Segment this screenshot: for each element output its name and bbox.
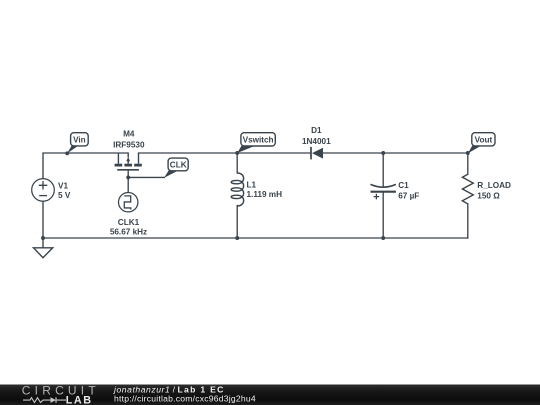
wire top rail left (V1 to M4 source) — [43, 153, 128, 178]
label R_LOAD value — [477, 181, 511, 201]
footer bar — [0, 385, 540, 405]
ground — [34, 238, 53, 258]
svg-text:1N4001: 1N4001 — [302, 137, 331, 146]
junction at M4 gate — [126, 175, 130, 179]
svg-text:M4: M4 — [123, 130, 135, 139]
inductor L1 — [231, 173, 243, 206]
svg-text:56.67 kHz: 56.67 kHz — [110, 227, 147, 236]
wire V1 bottom to ground junction — [42, 201, 44, 238]
svg-text:L1: L1 — [247, 181, 257, 190]
wire Vout corner down to R_LOAD — [467, 153, 469, 174]
wire R_LOAD bottom to rail — [467, 204, 469, 238]
junction at L1 bottom — [235, 236, 239, 240]
label C1 value — [398, 181, 419, 201]
svg-text:CLK: CLK — [170, 161, 187, 170]
svg-text:150 Ω: 150 Ω — [477, 192, 500, 201]
wire top rail right (D1 anode to Vout corner) — [323, 152, 468, 154]
wire bottom rail — [43, 237, 468, 239]
node flag CLK — [164, 158, 188, 178]
junction at C1 bottom — [381, 236, 385, 240]
wire C1 bottom to rail — [382, 192, 384, 238]
svg-text:R_LOAD: R_LOAD — [477, 181, 511, 190]
svg-text:IRF9530: IRF9530 — [113, 141, 145, 150]
junction at ground node — [41, 236, 45, 240]
label L1 value — [247, 181, 283, 200]
svg-text:67 µF: 67 µF — [398, 192, 419, 201]
junction at Vswitch node — [235, 151, 239, 155]
wire gate junction down to CLK1 — [127, 177, 129, 192]
svg-text:5 V: 5 V — [58, 191, 71, 200]
svg-text:V1: V1 — [58, 182, 68, 191]
resistor R_LOAD — [462, 174, 473, 204]
label CLK1 value — [110, 218, 147, 237]
capacitor C1 — [371, 184, 396, 199]
wire top rail middle (M4 drain to D1 cathode) — [139, 152, 311, 154]
svg-text:C1: C1 — [398, 181, 409, 190]
label M4 — [113, 130, 145, 150]
svg-text:CLK1: CLK1 — [118, 218, 140, 227]
CircuitLab logo wordmark — [22, 383, 100, 405]
junction at C1 top — [381, 151, 385, 155]
CircuitLab logo squiggle (resistor + diode) — [23, 397, 66, 403]
node flag Vout — [466, 133, 495, 155]
svg-text:Vin: Vin — [73, 136, 86, 145]
transistor M4 (PMOS IRF9530) — [115, 153, 142, 170]
svg-text:http://circuitlab.com/cxc96d3j: http://circuitlab.com/cxc96d3jg2hu4 — [114, 394, 256, 404]
footer credit line — [113, 384, 256, 403]
label V1 value — [58, 182, 71, 201]
voltage source V1 — [32, 179, 55, 202]
diode D1 — [311, 147, 323, 160]
node flag Vswitch — [237, 133, 275, 153]
wire Vswitch branch down to L1 — [236, 153, 238, 173]
label D1 — [302, 126, 331, 146]
wire C1 top branch — [382, 153, 384, 187]
svg-text:D1: D1 — [311, 126, 322, 135]
svg-text:1.119 mH: 1.119 mH — [247, 190, 283, 199]
node flag Vin — [65, 133, 88, 156]
wire L1 bottom to rail — [236, 206, 238, 239]
svg-text:Vout: Vout — [475, 135, 493, 144]
svg-text:Vswitch: Vswitch — [243, 136, 274, 145]
wire M4 gate lead and run to CLK flag — [128, 170, 164, 177]
svg-text:LAB: LAB — [66, 395, 93, 405]
clock source CLK1 — [119, 193, 138, 212]
